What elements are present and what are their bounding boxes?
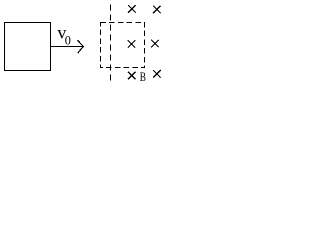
svg-text:0: 0 [65,34,71,48]
dashed vertical boundary line [110,4,112,81]
wire: velocity arrow shaft [51,46,83,48]
dashed field boundary rectangle [101,23,145,68]
field cross x5 (bottom-left) [128,72,136,80]
field cross x6 (bottom-right) [153,70,161,78]
field cross x1 (top-left) [128,5,136,12]
background [0,0,178,97]
field cross x2 (top-right) [153,6,161,13]
field cross x4 (middle-right) [151,40,159,48]
field cross x3 (middle-left) [128,40,136,48]
velocity arrowhead [77,40,83,53]
block (solid square) [5,23,51,71]
svg-text:B: B [140,69,146,84]
